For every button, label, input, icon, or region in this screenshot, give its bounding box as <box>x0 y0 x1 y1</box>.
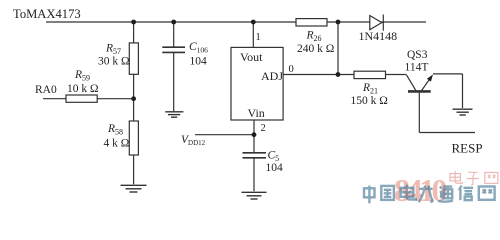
svg-text:114T: 114T <box>405 61 429 73</box>
svg-text:R58: R58 <box>107 123 123 137</box>
svg-text:VDD12: VDD12 <box>181 134 206 147</box>
svg-text:4 k Ω: 4 k Ω <box>104 138 130 150</box>
svg-text:150 k Ω: 150 k Ω <box>351 95 388 107</box>
svg-text:ADJ: ADJ <box>261 69 283 83</box>
svg-text:0: 0 <box>289 64 294 75</box>
svg-text:R26: R26 <box>306 30 322 44</box>
svg-text:Vin: Vin <box>248 106 265 120</box>
svg-text:Vout: Vout <box>240 50 263 64</box>
svg-text:ToMAX4173: ToMAX4173 <box>13 7 81 21</box>
svg-text:1N4148: 1N4148 <box>359 29 398 43</box>
svg-text:10 k Ω: 10 k Ω <box>67 83 99 95</box>
svg-text:R21: R21 <box>362 82 378 96</box>
svg-text:C5: C5 <box>268 149 280 163</box>
svg-text:R57: R57 <box>105 43 121 57</box>
svg-text:2: 2 <box>261 123 266 134</box>
svg-text:30 k Ω: 30 k Ω <box>98 56 130 68</box>
svg-text:R59: R59 <box>74 69 90 83</box>
svg-text:104: 104 <box>190 56 208 68</box>
svg-text:C106: C106 <box>189 41 208 55</box>
svg-text:RA0: RA0 <box>35 84 57 96</box>
svg-text:RESP: RESP <box>452 140 483 155</box>
svg-text:240 k Ω: 240 k Ω <box>297 43 334 55</box>
svg-text:104: 104 <box>266 162 284 174</box>
svg-text:1: 1 <box>256 32 261 43</box>
svg-text:QS3: QS3 <box>407 49 428 61</box>
